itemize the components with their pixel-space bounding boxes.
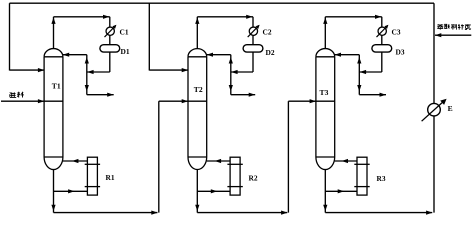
condenser C2	[249, 27, 257, 35]
column T1 top tangent line	[44, 56, 63, 58]
top recycle header line	[10, 2, 435, 4]
column T2 bottom tangent line	[188, 156, 207, 158]
reflux line into T2	[206, 54, 231, 56]
reboiler liquid draw from T2	[197, 190, 230, 192]
reboiler liquid draw from T3	[325, 190, 357, 192]
column T3 bottom head	[316, 157, 335, 170]
reflux line into T3	[334, 54, 359, 56]
feed line into T3	[288, 100, 334, 102]
svg-text:R3: R3	[377, 174, 386, 183]
column T2 bottoms downcomer	[196, 170, 198, 213]
svg-text:D1: D1	[121, 47, 130, 56]
reboiler R1 shell	[87, 157, 97, 195]
column T3 top tangent line	[316, 56, 335, 58]
left recycle downcomer to T1	[9, 3, 11, 70]
svg-text:T1: T1	[52, 82, 61, 91]
reflux line into T1	[63, 54, 87, 56]
overhead line to condenser C1	[54, 16, 110, 18]
reflux drum D1	[100, 45, 120, 52]
interstage feed riser to T2	[158, 101, 160, 212]
drum outlet down leg	[252, 52, 254, 72]
reboiler vapour return to T3	[335, 160, 357, 162]
overhead line to condenser C2	[197, 16, 253, 18]
drum outlet down leg	[381, 52, 383, 72]
reflux splitter vertical	[358, 55, 360, 95]
reboiler R2 tubesheets	[227, 163, 242, 165]
feed line into T2	[159, 100, 207, 102]
drum outlet to splitter	[87, 71, 110, 73]
reboiler R1 tubesheets	[85, 163, 100, 165]
feed line 进料 into T1	[1, 100, 63, 102]
svg-text:R2: R2	[249, 174, 258, 183]
column T2 bottom head	[188, 157, 207, 170]
reboiler vapour return to T1	[63, 160, 88, 162]
overhead vapour riser T2	[196, 17, 198, 49]
extractant cooler E	[428, 103, 441, 116]
svg-text:C1: C1	[120, 27, 129, 36]
svg-text:T2: T2	[194, 85, 203, 94]
reboiler R2 shell	[230, 157, 240, 195]
interstage feed riser to T3	[287, 101, 289, 212]
bottoms transfer line from T2	[197, 212, 287, 214]
column T1 bottom head	[44, 157, 63, 170]
reflux drum D3	[372, 45, 392, 52]
distillate product line	[87, 94, 114, 96]
reboiler liquid draw from T1	[54, 190, 88, 192]
distillate product line	[231, 94, 255, 96]
svg-text:D3: D3	[396, 47, 405, 56]
condenser inlet drop leg	[109, 17, 111, 45]
reboiler vapour return to T2	[207, 160, 230, 162]
reflux splitter vertical	[230, 55, 232, 95]
condenser C1	[106, 27, 114, 35]
overhead line to condenser C3	[325, 16, 382, 18]
column T2 top tangent line	[188, 56, 207, 58]
column T3 top head	[316, 49, 335, 57]
reflux drum D2	[243, 45, 263, 52]
distillate product line	[359, 94, 386, 96]
overhead vapour riser T3	[324, 17, 326, 49]
column T3 bottoms downcomer	[324, 170, 326, 213]
extractant make-up line 萃取剂补充	[435, 34, 471, 36]
bottoms transfer line from T3	[325, 212, 432, 214]
condenser inlet drop leg	[381, 17, 383, 45]
right recycle riser through E	[433, 3, 435, 212]
svg-text:C2: C2	[263, 27, 272, 36]
reflux splitter vertical	[86, 55, 88, 95]
column T2 top head	[188, 49, 207, 57]
condenser C3	[378, 27, 386, 35]
column T2 shell	[188, 57, 207, 157]
svg-text:T3: T3	[320, 88, 329, 97]
svg-text:E: E	[448, 104, 453, 113]
reboiler R3 shell	[357, 157, 367, 195]
reboiler R3 tubesheets	[354, 163, 369, 165]
svg-text:R1: R1	[106, 173, 115, 182]
svg-text:C3: C3	[392, 28, 401, 37]
recycle inlet line into T1	[10, 69, 45, 71]
drum outlet down leg	[109, 52, 111, 72]
column T1 shell	[44, 57, 63, 157]
column T1 top head	[44, 49, 63, 57]
bottoms transfer line from T1	[54, 212, 158, 214]
text 萃取剂补充 (extractant make-up)	[437, 24, 443, 29]
recycle inlet line into T2	[149, 69, 188, 71]
condenser inlet drop leg	[252, 17, 254, 45]
drum outlet to splitter	[231, 71, 253, 73]
overhead vapour riser T1	[53, 17, 55, 49]
column T1 bottoms downcomer	[53, 170, 55, 213]
column T3 bottom tangent line	[316, 156, 335, 158]
svg-text:D2: D2	[266, 48, 275, 57]
recycle branch downcomer to T2	[148, 3, 150, 70]
column T3 shell	[316, 57, 335, 157]
column T1 bottom tangent line	[44, 156, 63, 158]
drum outlet to splitter	[359, 71, 382, 73]
text 进料 (feed)	[10, 92, 16, 97]
